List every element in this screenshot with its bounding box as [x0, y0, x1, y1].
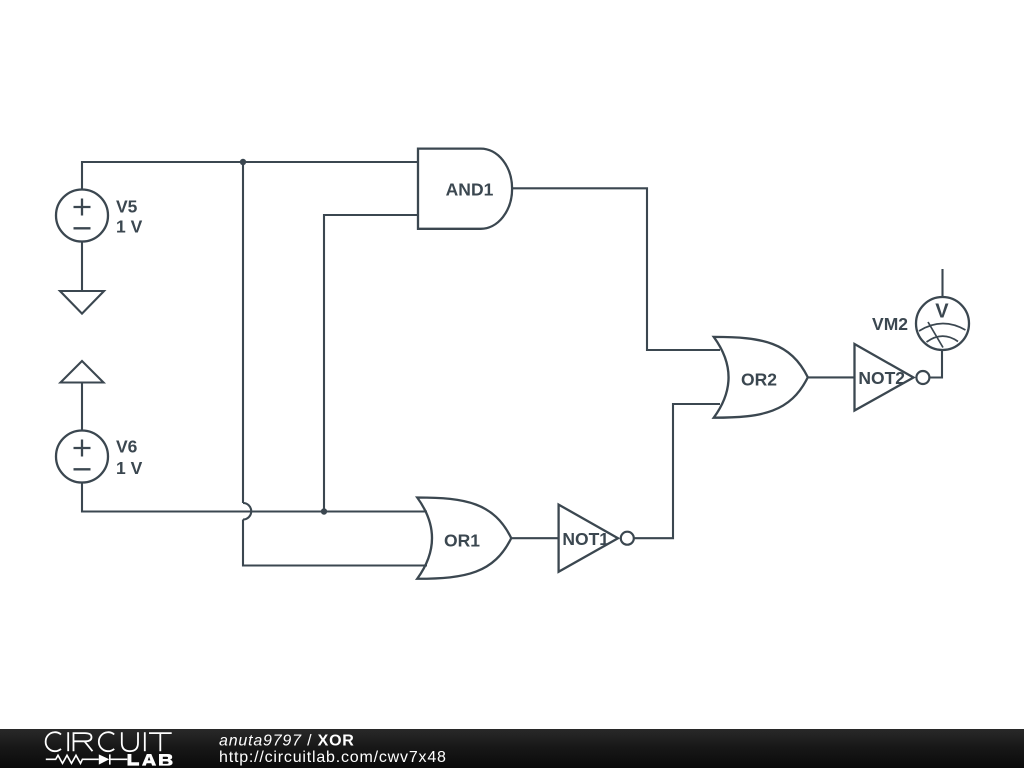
footer bar: [0, 729, 1024, 768]
or-gate OR1: [417, 498, 511, 579]
svg-text:anuta9797 / XOR: anuta9797 / XOR: [219, 733, 355, 750]
wire VM2 top stub: [941, 269, 943, 297]
CircuitLab logo LAB: [127, 754, 172, 766]
or-gate OR2: [714, 337, 808, 418]
wire NOT2 output to voltmeter VM2: [929, 351, 942, 378]
wire OR2 output to NOT2 input: [808, 376, 855, 378]
svg-text:V5: V5: [116, 196, 138, 216]
svg-text:V: V: [935, 300, 949, 322]
svg-text:http://circuitlab.com/cwv7x48: http://circuitlab.com/cwv7x48: [219, 749, 447, 766]
svg-text:V6: V6: [116, 437, 138, 457]
ground: [60, 291, 104, 314]
CircuitLab logo resistor-diode glyph: [46, 754, 128, 764]
svg-text:OR2: OR2: [741, 369, 777, 389]
svg-text:AND1: AND1: [446, 180, 494, 200]
NOT2 output bubble: [916, 371, 929, 384]
wire V6 negative to OR1 input A: [82, 482, 427, 512]
not-gate NOT1: [559, 505, 618, 572]
CircuitLab logo CIRCUIT: [46, 732, 172, 751]
wire node A down to OR1 input B (with hop): [243, 162, 427, 566]
and-gate AND1: [418, 149, 512, 229]
wire AND1 output to OR2 input A: [512, 188, 720, 350]
svg-text:OR1: OR1: [444, 530, 480, 550]
wire V5 positive to node A: [82, 162, 418, 189]
svg-text:1 V: 1 V: [116, 217, 143, 237]
voltage source V6: [56, 431, 108, 483]
voltage source V5: [56, 190, 108, 242]
wire NOT1 output to OR2 input B: [634, 404, 720, 538]
wire V5 negative to ground: [81, 241, 83, 291]
svg-text:NOT1: NOT1: [562, 529, 609, 549]
not-gate NOT2: [855, 344, 914, 411]
svg-text:VM2: VM2: [872, 314, 908, 334]
svg-text:NOT2: NOT2: [858, 368, 905, 388]
junction node A: [240, 159, 246, 165]
wire riser to AND1 input B: [324, 215, 418, 512]
junction at AND1 input B riser: [321, 508, 327, 514]
wire arrow to V6 positive: [81, 383, 83, 432]
NOT1 output bubble: [621, 532, 634, 545]
svg-text:1 V: 1 V: [116, 458, 143, 478]
wire hop over V6 wire: [243, 503, 251, 520]
wire OR1 output to NOT1 input: [511, 537, 558, 539]
voltmeter VM2: [916, 297, 969, 350]
node arrow above V6: [61, 361, 104, 383]
